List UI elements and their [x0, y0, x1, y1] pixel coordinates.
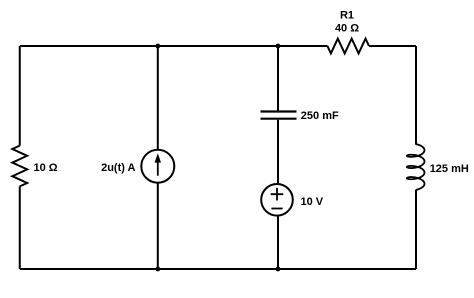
resistor R1: [327, 39, 369, 54]
junction node bottom-left: [155, 267, 160, 272]
svg-text:125 mH: 125 mH: [430, 163, 469, 175]
inductor 125 mH: [407, 144, 425, 190]
resistor 10 Ohm: [12, 146, 27, 187]
label R1: [340, 9, 354, 21]
wire top-left segment: [20, 45, 328, 47]
current source arrow: [155, 153, 161, 175]
value label 10 V: [301, 196, 324, 208]
wire right branch upper: [415, 46, 417, 145]
svg-text:10 Ω: 10 Ω: [34, 162, 58, 174]
svg-text:10 V: 10 V: [301, 196, 324, 208]
value label 125 mH: [430, 163, 469, 175]
wire right branch lower: [415, 190, 417, 269]
value label 2u(t) A: [101, 162, 135, 174]
wire current-source branch lower: [157, 183, 159, 269]
value label 250 mF: [301, 110, 339, 122]
junction node bottom-mid: [276, 267, 281, 272]
junction node top-mid: [276, 44, 281, 49]
wire top-right segment: [369, 45, 416, 47]
svg-text:2u(t) A: 2u(t) A: [101, 162, 135, 174]
wire bottom segment: [20, 268, 416, 270]
value label 10 Ω: [34, 162, 58, 174]
value label 40 Ω: [335, 23, 359, 35]
capacitor 250 mF: [261, 112, 297, 119]
wire capacitor branch upper: [277, 46, 279, 111]
wire capacitor-to-source segment: [277, 120, 279, 185]
wire voltage-source lower: [277, 215, 279, 269]
wire left branch: [19, 46, 21, 269]
svg-text:40 Ω: 40 Ω: [335, 23, 359, 35]
svg-text:250 mF: 250 mF: [301, 110, 339, 122]
voltage source V1 circle: [261, 184, 293, 216]
junction node top-left: [155, 44, 160, 49]
voltage source plus sign: [271, 188, 284, 201]
wire current-source branch upper: [157, 46, 159, 150]
voltage source minus sign: [271, 208, 282, 210]
svg-text:R1: R1: [340, 9, 354, 21]
current source I1 circle: [141, 150, 174, 183]
